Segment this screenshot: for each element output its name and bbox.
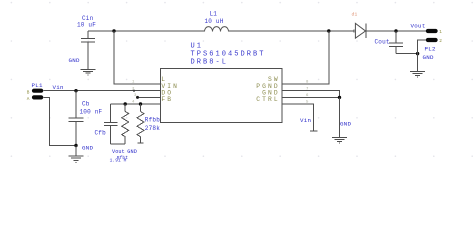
svg-text:CTRL: CTRL (256, 96, 280, 103)
ground at PL2 (410, 72, 425, 78)
connector PL2 pin 2 pad (426, 38, 438, 42)
pin end VIN (133, 90, 135, 92)
node junction PL2 gnd (416, 52, 419, 55)
svg-text:GND: GND (127, 149, 137, 155)
wire L pin to top rail (114, 31, 160, 84)
wire DO pin stub (138, 96, 161, 98)
wire PGND (282, 91, 340, 98)
wire Cout bottom to ground (396, 53, 418, 55)
ground at IC (332, 138, 347, 144)
wire GND pin (282, 96, 340, 98)
svg-text:Vout: Vout (112, 149, 125, 155)
svg-text:Vin: Vin (300, 117, 311, 124)
resistor Rfbt (122, 104, 129, 144)
svg-text:GND: GND (423, 54, 435, 61)
svg-text:1: 1 (439, 30, 442, 35)
wire Vin from PL1 to VIN pin (43, 90, 160, 92)
wire down to ground (417, 54, 419, 72)
svg-text:278k: 278k (145, 125, 160, 132)
svg-text:Cb: Cb (82, 101, 90, 108)
capacitor Cfb (104, 104, 118, 144)
svg-text:PL1: PL1 (32, 82, 44, 89)
wire bracket Cfb Rfbt (111, 143, 126, 145)
wire top rail right (367, 30, 426, 32)
wire PL2 pin2 to ground (418, 40, 426, 54)
svg-text:Cfb: Cfb (95, 130, 107, 137)
svg-text:PL2: PL2 (425, 45, 437, 52)
svg-text:GND: GND (340, 121, 352, 128)
node junction Rfbb top (139, 102, 142, 105)
svg-text:L1: L1 (210, 11, 218, 18)
connector PL1 pin A pad (32, 95, 43, 99)
svg-text:10 uF: 10 uF (77, 22, 96, 29)
svg-text:10 uH: 10 uH (205, 18, 224, 25)
ground at Cb (69, 156, 84, 162)
svg-text:Cout: Cout (375, 39, 390, 46)
ground at Cin (81, 69, 96, 75)
capacitor Cin (81, 31, 95, 69)
svg-text:FB: FB (161, 96, 173, 103)
node junction Cb on Vin wire (74, 89, 77, 92)
wire FB net (111, 103, 161, 105)
connector PL2 pin 1 pad (426, 29, 438, 33)
op IC U1 box (160, 69, 282, 123)
net stub bar Vin (310, 130, 318, 132)
wire SW to top rail (282, 31, 329, 84)
node junction PGND GND (338, 96, 341, 99)
node junction top rail Vout/Cout (394, 29, 397, 32)
node junction top rail to L pin (112, 29, 115, 32)
svg-text:2: 2 (439, 39, 442, 44)
pin end DO unconnected (136, 96, 139, 99)
svg-text:Vin: Vin (53, 84, 64, 91)
svg-text:d1: d1 (352, 12, 358, 18)
resistor Rfbb (137, 104, 144, 143)
svg-text:GND: GND (69, 57, 81, 64)
node junction at Cb bottom (74, 144, 77, 147)
connector PL1 pin B pad (32, 89, 43, 93)
wire top rail mid (229, 30, 355, 32)
inductor L1 (205, 27, 229, 32)
capacitor Cb (69, 91, 84, 146)
capacitor Cout (389, 31, 403, 54)
node junction Rfbt top (124, 102, 127, 105)
node junction top rail to SW (327, 29, 330, 32)
svg-text:Vout: Vout (411, 22, 426, 29)
svg-text:100 nF: 100 nF (80, 109, 103, 116)
wire PL1 pin A to ground (43, 97, 76, 145)
svg-text:TPS61045DRBT: TPS61045DRBT (191, 51, 266, 59)
svg-text:Rfbb: Rfbb (145, 117, 160, 124)
wire GND down (339, 97, 341, 137)
svg-text:1.91 M: 1.91 M (110, 158, 127, 164)
grid dots (11, 2, 473, 157)
wire stub to ground (75, 146, 77, 156)
svg-text:DRB8-L: DRB8-L (191, 59, 229, 67)
svg-text:U1: U1 (191, 43, 204, 51)
wire top rail left (88, 30, 205, 32)
svg-text:B: B (27, 90, 30, 95)
diode d1 (354, 23, 366, 38)
svg-text:A: A (27, 97, 30, 102)
wire CTRL to Vin stub (282, 104, 314, 131)
svg-text:GND: GND (82, 144, 94, 151)
